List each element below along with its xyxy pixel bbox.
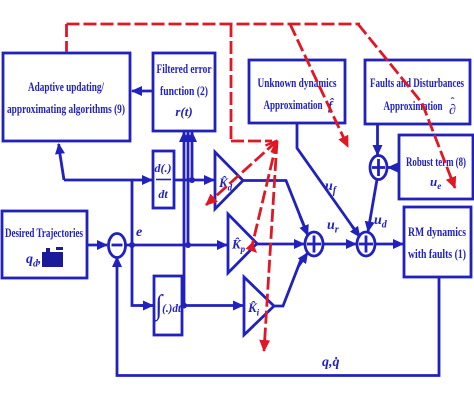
svg-text:ur: ur	[327, 218, 339, 236]
svg-text:r(t): r(t)	[175, 104, 192, 119]
wire: output sum to RM dynamics	[375, 243, 403, 246]
svg-text:with faults (1): with faults (1)	[408, 246, 466, 261]
wire: u_r sum to output sum	[323, 243, 356, 246]
svg-text:e: e	[136, 225, 142, 240]
wire: red dashed diagonal to f-hat arrow	[290, 24, 348, 147]
wire: bent arrow up into adaptive box	[59, 148, 64, 180]
box: Robust term (8) u_e	[399, 135, 473, 199]
summing junction: u_r sum	[305, 232, 323, 256]
svg-text:q,q̇: q,q̇	[322, 355, 340, 370]
gain Kd triangle	[215, 152, 243, 209]
wire: Ki output to u_r sum	[274, 257, 302, 306]
wire: feedback from RM dynamics to comparator	[117, 257, 439, 376]
box: Faults and Disturbances Approximation d-hat	[365, 60, 470, 124]
gain Kp triangle	[228, 214, 257, 273]
wire: Kd output to u_r sum	[243, 181, 308, 235]
box: Adaptive updating/approximating algorithms (9)	[3, 53, 130, 141]
wire: unknown dynamics u_f to output sum	[297, 123, 360, 237]
wire: arrow into derivative box	[132, 179, 152, 182]
box: integral (.)dt	[153, 276, 182, 335]
node: junction e branch	[129, 242, 135, 248]
summing junction: minus comparator	[109, 234, 126, 258]
node: junction on derivative output	[189, 177, 195, 183]
wire: desired trajectories to comparator	[87, 244, 107, 247]
wire: Kp output to u_r sum	[257, 243, 304, 246]
wire: r(t) input line from integral	[183, 132, 186, 306]
svg-text:d(.): d(.)	[155, 161, 172, 175]
svg-text:function (2): function (2)	[160, 83, 208, 98]
node: junction on integral output	[181, 303, 187, 309]
wire: red dashed arrow to gain Kp	[252, 141, 277, 246]
summing junction: output sum to RM	[357, 232, 375, 256]
svg-text:Faults and Disturbances: Faults and Disturbances	[370, 75, 464, 90]
svg-text:Approximation: Approximation	[264, 97, 324, 112]
wire: red dashed arrow to gain Kd (double headed)	[206, 141, 277, 205]
wire: red dashed horizontal into fan junction	[231, 140, 272, 143]
svg-text:Filtered error: Filtered error	[157, 61, 212, 76]
box: Filtered error function (2) r(t)	[153, 53, 215, 131]
summing junction: robust + disturbance sum	[370, 156, 387, 180]
svg-text:uf: uf	[325, 179, 338, 197]
wire: red dashed arrow past gain Ki	[264, 141, 277, 351]
wire: robust term into robust sum	[388, 166, 399, 169]
wire: error branch up from e-line	[64, 180, 132, 245]
svg-text:Adaptive updating/: Adaptive updating/	[28, 79, 104, 94]
svg-text:Robust term (8): Robust term (8)	[406, 154, 466, 169]
svg-text:dt: dt	[158, 187, 168, 201]
wire: u_d from robust sum to output sum	[368, 180, 377, 232]
svg-text:ˆ: ˆ	[451, 95, 455, 109]
box: derivative d(.)/dt	[153, 151, 174, 208]
wire: red dashed vertical branch at x=231	[230, 24, 233, 140]
svg-text:ud: ud	[374, 213, 388, 231]
wire: red dashed diagonal to u_e arrow	[358, 24, 455, 188]
wire: integral output to Ki	[182, 304, 243, 307]
wire: r(t) input line from derivative	[191, 132, 194, 180]
wire: red dashed drop into adaptive box	[65, 24, 68, 52]
wire: red dashed top horizontal bus	[67, 23, 361, 26]
wire: filtered error to adaptive box	[132, 90, 153, 93]
wire: derivative output to Kd	[174, 179, 214, 182]
svg-text:Desired Trajectories: Desired Trajectories	[5, 225, 83, 240]
svg-text:approximating algorithms (9): approximating algorithms (9)	[7, 101, 125, 116]
box: Desired Trajectories q_d	[2, 211, 87, 278]
svg-text:Approximation: Approximation	[384, 98, 444, 113]
node: junction on e-line	[185, 242, 191, 248]
wire: faults box down to robust sum	[376, 124, 379, 155]
wire: error e line to Kp	[126, 244, 228, 247]
svg-text:Unknown dynamics: Unknown dynamics	[258, 75, 337, 90]
wire: e-line branch down to integral box	[132, 245, 145, 306]
wire: r(t) input line from error e	[187, 132, 190, 245]
gain Ki triangle	[244, 277, 274, 335]
svg-text:RM dynamics: RM dynamics	[408, 224, 466, 239]
box: Unknown dynamics Approximation f-hat	[249, 60, 345, 123]
box: RM dynamics with faults (1)	[404, 207, 471, 277]
